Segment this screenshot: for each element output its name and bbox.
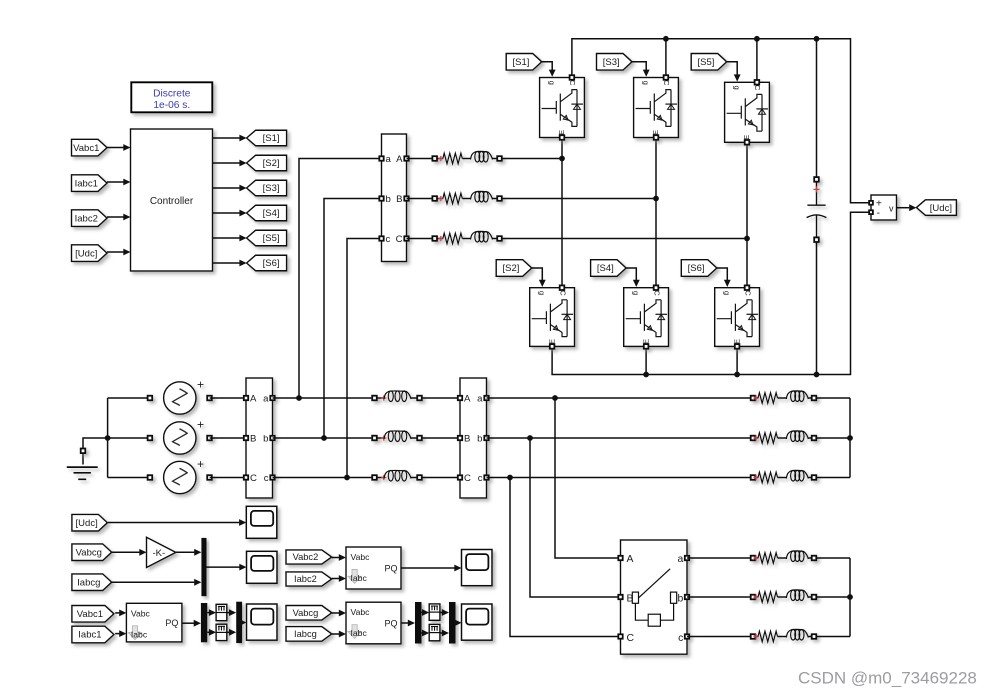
wire load2 phase b to star — [816, 596, 850, 598]
svg-text:Iabc1: Iabc1 — [78, 630, 101, 641]
series RL load 1 phase b — [751, 431, 817, 443]
IGBT/Diode block 2 (S2) — [530, 285, 575, 348]
svg-text:[S4]: [S4] — [597, 263, 614, 274]
svg-text:g: g — [722, 291, 731, 295]
svg-text:Iabc: Iabc — [351, 628, 368, 638]
demux bar 1 — [201, 603, 207, 642]
wire controller output [S2] — [213, 162, 240, 164]
AC voltage source phase B — [148, 418, 212, 455]
scope block 5 (PQ3) — [462, 604, 493, 640]
svg-text:B: B — [250, 433, 256, 444]
svg-text:Vabc: Vabc — [351, 552, 371, 562]
arrowhead into goto Udc — [909, 204, 916, 211]
wire [S4] gate — [626, 268, 636, 281]
wire [S5] gate — [727, 62, 738, 76]
wire Vabcg to gain — [112, 551, 140, 553]
wire breaker output phase c — [687, 636, 750, 638]
IGBT/Diode block 6 (S6) — [715, 285, 760, 348]
arrowhead into scope3 — [239, 619, 246, 626]
wire load2 phase c to star — [816, 636, 850, 638]
wire [S1] gate — [542, 62, 553, 71]
gate arrowhead [S2] — [539, 280, 546, 287]
svg-text:B: B — [396, 194, 402, 205]
svg-text:C: C — [250, 473, 257, 484]
wire RL branch to bridge phase A — [502, 158, 562, 160]
wire Iabcg to mux — [112, 581, 195, 583]
arrowhead into scope5 — [454, 619, 461, 626]
svg-text:[Udc]: [Udc] — [76, 518, 98, 529]
junction rail IGBT3 — [754, 36, 760, 42]
wire IGBT5 emitter to rail — [645, 346, 647, 374]
arrowhead into goto [S6] — [239, 260, 246, 267]
svg-text:[S1]: [S1] — [512, 57, 529, 68]
wire Iabcg to PQ3 — [332, 633, 339, 635]
wire grid phase a to load — [487, 397, 751, 399]
svg-text:PQ: PQ — [165, 618, 178, 628]
svg-text:[S4]: [S4] — [263, 208, 280, 219]
capacitor C1 (DC link) — [807, 177, 827, 242]
svg-text:[Udc]: [Udc] — [75, 248, 97, 259]
wire breaker output phase a — [687, 557, 750, 559]
wire Udc to scope — [108, 522, 239, 524]
wire controller output [S1] — [213, 137, 240, 139]
arrowhead mean P2 into mux3 — [442, 609, 449, 616]
wire Iabc2 to PQ2 — [332, 578, 339, 580]
arrowhead mean Q1 into mux2 — [229, 629, 236, 636]
wire mean P2 to mux3 — [440, 612, 442, 614]
wire load2 phase a to star — [816, 557, 850, 559]
arrowhead into controller (Iabc2) — [123, 214, 130, 221]
svg-text:E: E — [742, 135, 751, 140]
series RL branch inverter phase A — [432, 151, 501, 163]
wire controller output [S6] — [213, 262, 240, 264]
active & reactive power block PQ3 — [346, 602, 401, 644]
svg-text:E: E — [557, 130, 566, 135]
controller block — [131, 129, 213, 271]
arrowhead into mean P — [209, 609, 216, 616]
wire measurement1 output phase b — [273, 437, 373, 439]
arrowhead into scope2 — [239, 564, 246, 571]
svg-text:Iabc: Iabc — [351, 573, 368, 583]
wire mux1 to scope2 — [207, 566, 240, 568]
series RL load 2 phase a — [751, 551, 817, 563]
watermark text — [798, 669, 977, 688]
wire gain to mux — [176, 551, 195, 553]
svg-text:E: E — [547, 339, 556, 344]
AC voltage source phase C — [148, 457, 212, 494]
inductor branch L2 phase b — [372, 431, 422, 442]
svg-text:Discrete: Discrete — [153, 89, 191, 100]
from tag Vabcg — [72, 544, 112, 561]
wire measurement3 C to RL branch — [407, 238, 433, 240]
wire grid phase c to load — [487, 477, 751, 479]
arrowhead mean P1 into mux2 — [229, 609, 236, 616]
svg-text:[S3]: [S3] — [603, 57, 620, 68]
from tag Iabc2 (controller input) — [72, 210, 108, 227]
wire Vabc1 to controller — [107, 147, 124, 149]
arrowhead into goto [S2] — [239, 160, 246, 167]
wire IGBT6 emitter to rail — [736, 346, 738, 374]
svg-text:A: A — [464, 393, 471, 404]
svg-text:C: C — [627, 633, 635, 644]
junction rail IGBT6 — [734, 372, 740, 378]
svg-text:v: v — [889, 204, 894, 214]
wire Iabc2 to controller — [107, 216, 124, 218]
svg-text:c: c — [264, 473, 269, 484]
goto tag [S2] — [247, 155, 287, 171]
wire load1 phase b to star — [816, 437, 850, 439]
wire inductor to measurement2 phase c — [422, 477, 460, 479]
junction source bus phase B — [105, 435, 111, 441]
wire controller output [S3] — [213, 187, 240, 189]
gate arrowhead [S5] — [734, 74, 741, 81]
junction load2 star — [847, 594, 853, 600]
wire tap up to inverter measurement phase b — [324, 199, 382, 439]
wire [S6] gate — [717, 268, 728, 281]
svg-text:a: a — [263, 393, 269, 404]
from tag Iabcg — [72, 574, 112, 591]
svg-text:Vabcg: Vabcg — [293, 608, 319, 618]
arrowhead into controller (Iabc1) — [123, 179, 130, 186]
svg-text:+: + — [197, 378, 204, 392]
arrowhead into controller ([Udc]) — [123, 249, 130, 256]
from tag [Udc] (controller input) — [72, 245, 108, 262]
svg-text:g: g — [631, 291, 640, 295]
svg-text:C: C — [652, 290, 661, 296]
wire inductor to measurement2 phase b — [422, 437, 460, 439]
svg-text:b: b — [477, 433, 482, 444]
demux bar 2 — [415, 602, 422, 644]
arrowhead gain into mux — [194, 549, 201, 556]
svg-text:Vabcg: Vabcg — [76, 547, 102, 558]
svg-text:E: E — [732, 339, 741, 344]
wire rail to capacitor — [816, 39, 818, 177]
wire phase C column — [746, 142, 748, 285]
svg-text:-: - — [877, 208, 880, 219]
arrowhead Vabc1 into PQ1 — [119, 610, 126, 617]
arrowhead into goto [S1] — [239, 135, 246, 142]
three-phase V-I measurement block 1 (source side) — [244, 378, 275, 498]
svg-text:Iabc2: Iabc2 — [75, 213, 98, 224]
svg-text:[S6]: [S6] — [688, 263, 705, 274]
gain block -K- — [147, 537, 176, 567]
svg-text:g: g — [537, 291, 546, 295]
junction load1 star — [847, 435, 853, 441]
series RL load 1 phase c — [751, 470, 817, 482]
wire load1 star connection — [849, 398, 851, 478]
active & reactive power block PQ2 — [346, 547, 401, 589]
wire phase A column — [561, 138, 563, 286]
svg-text:Iabc2: Iabc2 — [294, 574, 317, 584]
series RL branch inverter phase B — [432, 191, 501, 203]
svg-text:g: g — [732, 85, 741, 89]
svg-text:[Udc]: [Udc] — [930, 203, 952, 214]
wire [S3] gate — [632, 62, 646, 71]
svg-text:PQ: PQ — [384, 619, 397, 629]
three-phase V-I measurement block 2 (grid side) — [458, 378, 489, 498]
arrowhead mean Q2 into mux3 — [442, 630, 449, 637]
svg-text:A: A — [250, 393, 257, 404]
ground symbol — [67, 449, 98, 480]
from tag [S1] (gate) — [506, 54, 542, 71]
svg-text:g: g — [547, 81, 556, 85]
wire Vabcg to PQ3 — [332, 612, 339, 614]
wire source to measurement phase C — [210, 477, 246, 479]
svg-text:[S5]: [S5] — [263, 233, 280, 244]
IGBT/Diode block 3 (S3) — [634, 75, 679, 140]
svg-text:c: c — [478, 473, 483, 484]
wire tap up to inverter measurement phase a — [299, 159, 382, 399]
wire rail to IGBT2 collector — [665, 39, 667, 76]
mux bar 3 — [449, 602, 456, 644]
arrowhead Iabcg into mux — [194, 579, 201, 586]
arrowhead into demux1 — [194, 620, 201, 627]
from tag [S5] (gate) — [691, 54, 727, 71]
svg-text:A: A — [627, 554, 634, 565]
svg-text:[S2]: [S2] — [263, 158, 280, 169]
from tag Iabc1 (PQ feed) — [72, 626, 114, 643]
wire load2 star connection — [849, 558, 851, 637]
wire Iabc1 to PQ1 — [115, 633, 119, 635]
inductor branch L1 phase a — [372, 391, 422, 402]
wire tap up to inverter measurement phase c — [347, 239, 382, 478]
gate arrowhead [S4] — [633, 280, 640, 287]
wire Vabc2 to PQ2 — [332, 557, 339, 559]
arrowhead into demux2 — [408, 620, 415, 627]
wire load1 phase c to star — [816, 477, 850, 479]
junction rail capacitor — [814, 36, 820, 42]
arrowhead Iabc1 into PQ1 — [119, 630, 126, 637]
IGBT/Diode block 4 (S4) — [624, 285, 669, 348]
arrowhead into controller (Vabc1) — [123, 144, 130, 151]
svg-text:[S6]: [S6] — [263, 258, 280, 269]
from tag [Udc] (scope feed) — [72, 514, 108, 531]
arrowhead into mean Q — [209, 629, 216, 636]
from tag [S2] (gate) — [496, 260, 532, 277]
svg-text:C: C — [464, 473, 471, 484]
svg-text:[S1]: [S1] — [263, 133, 280, 144]
wire capacitor to negative rail — [816, 242, 818, 375]
svg-text:a: a — [678, 554, 684, 565]
wire PQ3 to demux2 — [401, 622, 408, 624]
inductor branch L3 phase c — [372, 470, 422, 481]
wire down to breaker phase A — [555, 398, 621, 558]
junction breaker feeder phase b — [527, 435, 533, 441]
svg-text:+: + — [197, 457, 204, 471]
wire demux2 out Q — [421, 632, 424, 634]
mean block P1 — [216, 604, 227, 620]
svg-text:b: b — [678, 593, 684, 604]
arrowhead into mean Q2 — [422, 630, 429, 637]
wire DC negative rail — [552, 212, 868, 374]
junction tap phase a — [296, 395, 302, 401]
junction tap phase b — [321, 435, 327, 441]
junction bridge phase A — [559, 156, 565, 162]
wire source to measurement phase B — [210, 437, 246, 439]
svg-text:Iabc: Iabc — [131, 629, 148, 639]
arrowhead into goto [S4] — [239, 210, 246, 217]
wire rail to IGBT3 collector — [756, 39, 758, 80]
from tag [S4] (gate) — [591, 260, 627, 277]
arrowhead into scope4 — [454, 565, 461, 572]
wire load1 phase a to star — [816, 397, 850, 399]
svg-text:CSDN @m0_73469228: CSDN @m0_73469228 — [798, 669, 977, 688]
wire Iabc1 to controller — [107, 181, 124, 183]
series RL branch inverter phase C — [432, 231, 501, 243]
svg-text:[S2]: [S2] — [502, 263, 519, 274]
svg-text:Vabc: Vabc — [131, 608, 151, 618]
from tag Iabcg (PQ feed) — [286, 627, 332, 642]
series RL load 2 phase c — [751, 629, 817, 641]
svg-text:C: C — [743, 290, 752, 296]
scope block 4 (PQ2) — [462, 550, 493, 586]
wire Vabc1 to PQ1 — [115, 612, 119, 614]
from tag Vabcg (PQ feed) — [286, 606, 332, 621]
scope block 1 (Udc) — [246, 506, 276, 538]
svg-text:Iabcg: Iabcg — [294, 629, 317, 639]
from tag [S3] (gate) — [597, 54, 633, 71]
wire mean P1 to mux2 — [227, 612, 229, 614]
wire controller output [S5] — [213, 237, 240, 239]
wire measurement1 output phase c — [273, 477, 373, 479]
svg-text:a: a — [477, 393, 483, 404]
svg-text:Vabc1: Vabc1 — [73, 143, 99, 154]
AC voltage source phase A — [148, 378, 212, 415]
svg-text:E: E — [641, 339, 650, 344]
svg-text:C: C — [568, 80, 577, 86]
mux bar 1 — [201, 538, 206, 596]
mean block P2 — [429, 604, 440, 620]
wire PQ2 to scope4 — [401, 567, 455, 569]
mean block Q1 — [216, 624, 227, 640]
wire down to breaker phase B — [530, 438, 621, 597]
IGBT/Diode block 5 (S5) — [725, 80, 770, 145]
svg-text:c: c — [386, 234, 391, 245]
svg-text:B: B — [627, 593, 634, 604]
svg-text:b: b — [263, 433, 268, 444]
svg-text:E: E — [651, 130, 660, 135]
wire source to measurement phase A — [210, 397, 246, 399]
gate arrowhead [S6] — [724, 280, 731, 287]
svg-text:Controller: Controller — [150, 196, 194, 207]
junction breaker feeder phase c — [507, 475, 513, 481]
svg-text:[S3]: [S3] — [263, 183, 280, 194]
from tag Iabc2 — [286, 572, 332, 586]
series RL load 1 phase a — [751, 391, 817, 403]
wire [S2] gate — [532, 268, 543, 281]
svg-text:B: B — [464, 433, 470, 444]
series RL load 2 phase b — [751, 590, 817, 602]
mean block Q2 — [429, 624, 440, 640]
wire RL branch to bridge phase B — [502, 198, 656, 200]
wire mean Q1 to mux2 — [227, 631, 229, 633]
from tag Vabc1 (controller input) — [72, 139, 108, 156]
svg-text:Iabc1: Iabc1 — [75, 178, 98, 189]
powergui block (Discrete 1e-06 s.) — [131, 82, 212, 112]
svg-text:C: C — [396, 234, 403, 245]
wire source bus vertical — [107, 398, 109, 478]
arrowhead Vabcg into PQ3 — [339, 610, 346, 617]
wire bus to source phase B — [108, 437, 152, 439]
voltage measurement block U1 — [869, 195, 896, 220]
wire inductor to measurement2 phase a — [422, 397, 460, 399]
gate arrowhead [S1] — [549, 70, 556, 77]
scope block 2 (Vabcg/Iabcg) — [247, 551, 278, 583]
wire demux1 out P — [207, 612, 209, 614]
svg-text:[S5]: [S5] — [697, 57, 714, 68]
from tag Vabc2 — [286, 550, 332, 564]
arrowhead into goto [S3] — [239, 185, 246, 192]
goto tag [S1] — [247, 130, 287, 146]
svg-text:A: A — [396, 154, 403, 165]
wire measurement1 output phase a — [273, 397, 373, 399]
svg-text:PQ: PQ — [384, 564, 397, 574]
from tag Vabc1 (PQ feed) — [72, 606, 114, 623]
three-phase V-I measurement block 3 (inverter side) — [379, 134, 408, 262]
from tag [S6] (gate) — [681, 260, 717, 277]
arrowhead Iabc2 into PQ2 — [339, 575, 346, 582]
svg-text:C: C — [662, 80, 671, 86]
wire mean Q2 to mux3 — [440, 632, 442, 634]
svg-text:b: b — [386, 194, 391, 205]
svg-text:g: g — [641, 81, 650, 85]
junction bridge phase B — [653, 196, 659, 202]
svg-text:Vabc: Vabc — [351, 607, 371, 617]
goto tag [Udc] — [916, 200, 956, 216]
svg-text:C: C — [753, 85, 762, 91]
wire demux2 out P — [421, 612, 424, 614]
junction rail IGBT2 — [663, 36, 669, 42]
svg-text:a: a — [386, 154, 392, 165]
wire PQ1 to demux — [182, 622, 194, 624]
junction rail IGBT5 — [643, 372, 649, 378]
mux bar 2 — [236, 602, 242, 643]
arrowhead into mean P2 — [422, 609, 429, 616]
junction bridge phase C — [744, 236, 750, 242]
junction breaker feeder phase a — [552, 395, 558, 401]
svg-text:-K-: -K- — [152, 548, 165, 559]
arrowhead into gain — [139, 549, 146, 556]
wire voltmeter to goto — [897, 207, 910, 209]
wire ground stub — [83, 438, 108, 465]
three-phase breaker block — [618, 540, 689, 654]
junction tap phase c — [344, 475, 350, 481]
arrowhead Vabc2 into PQ2 — [339, 554, 346, 561]
wire down to breaker phase C — [510, 478, 621, 637]
wire breaker output phase b — [687, 596, 750, 598]
wire demux1 out Q — [207, 631, 209, 633]
svg-text:c: c — [678, 633, 683, 644]
wire controller output [S4] — [213, 212, 240, 214]
svg-text:C: C — [558, 290, 567, 296]
goto tag [S6] — [247, 255, 287, 271]
svg-text:1e-06 s.: 1e-06 s. — [153, 100, 190, 111]
IGBT/Diode block 1 (S1) — [540, 75, 585, 140]
junction rail capacitor bottom — [814, 372, 820, 378]
wire bus to source phase A — [108, 397, 152, 399]
wire bus to source phase C — [108, 477, 152, 479]
svg-text:Vabc2: Vabc2 — [293, 552, 319, 562]
wire RL branch to bridge phase C — [502, 238, 747, 240]
active & reactive power block PQ1 — [126, 603, 181, 642]
wire [Udc] to controller — [107, 251, 124, 253]
wire measurement3 B to RL branch — [407, 198, 433, 200]
svg-text:Vabc1: Vabc1 — [77, 609, 103, 620]
wire grid phase b to load — [487, 437, 751, 439]
wire phase B column — [655, 138, 657, 286]
scope block 3 (PQ1) — [247, 604, 278, 640]
goto tag [S5] — [247, 230, 287, 246]
